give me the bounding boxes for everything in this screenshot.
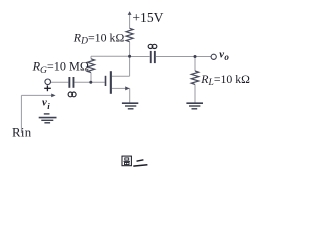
svg-text:Rin: Rin — [12, 126, 32, 140]
svg-text:vo: vo — [219, 49, 229, 62]
svg-text:RG=10 MΩ: RG=10 MΩ — [32, 60, 89, 76]
svg-text:+15V: +15V — [132, 10, 163, 25]
svg-text:RD=10 kΩ: RD=10 kΩ — [73, 30, 125, 46]
svg-text:vi: vi — [42, 96, 50, 111]
svg-text:RL=10 kΩ: RL=10 kΩ — [200, 72, 250, 88]
